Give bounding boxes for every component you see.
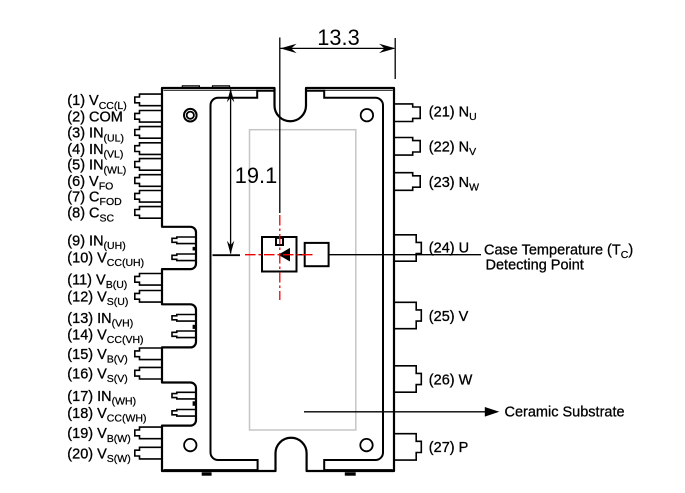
Tc arrowhead <box>278 248 290 262</box>
svg-text:(2) COM: (2) COM <box>67 110 123 126</box>
dimension 13.3 right extension line <box>394 38 396 79</box>
dimension 13.3 line with arrows <box>281 47 395 49</box>
vertical center/extension line <box>279 38 281 214</box>
pin 25 lead <box>393 302 421 328</box>
IGBT chip (Tc detect) square <box>262 237 297 272</box>
diode chip square <box>305 243 329 266</box>
svg-text:Ceramic Substrate: Ceramic Substrate <box>505 405 625 421</box>
pin 12 lead <box>135 291 164 303</box>
svg-text:Detecting Point: Detecting Point <box>486 258 584 274</box>
svg-text:(24) U: (24) U <box>429 240 469 256</box>
pin 21 lead <box>393 104 420 122</box>
top chamfer line left <box>164 89 258 91</box>
pin 2 lead <box>135 111 164 123</box>
edge mark recess 3 <box>193 401 196 406</box>
pin 15 lead <box>135 348 164 360</box>
bottom chamfer line right <box>324 468 393 470</box>
gate mark bottom 1 <box>202 472 212 475</box>
pin 11 lead <box>135 274 164 286</box>
pin 16 lead <box>135 367 164 379</box>
svg-text:(25) V: (25) V <box>429 309 469 325</box>
pin 14 lead <box>172 331 198 338</box>
pin 7 lead <box>135 191 164 203</box>
mounting hole bottom-right <box>360 439 372 451</box>
pin 19 lead <box>135 427 164 439</box>
pin 1 lead <box>135 94 164 106</box>
pin 26 lead <box>393 366 421 392</box>
pin 23 lead <box>393 173 420 191</box>
pin 13 lead <box>172 315 198 322</box>
gate mark bottom 3 <box>345 472 356 475</box>
mounting hole top-left (pin1 index, double circle) <box>184 109 197 122</box>
svg-text:(26) W: (26) W <box>429 372 473 388</box>
pin 9 lead <box>172 237 198 244</box>
svg-text:(22) NV: (22) NV <box>429 140 476 159</box>
small sensor square on chip <box>276 238 283 245</box>
pin 3 lead <box>135 127 164 139</box>
mounting hole bottom-left <box>184 439 196 451</box>
pin 5 lead <box>135 159 164 171</box>
top chamfer line right <box>324 89 393 91</box>
pin 22 lead <box>393 138 420 156</box>
pin 18 lead <box>172 410 198 417</box>
dimension 19.1 line with arrows <box>230 90 232 254</box>
pin 6 lead <box>135 175 164 187</box>
svg-text:19.1: 19.1 <box>235 163 277 188</box>
case inner (lid) outline right half <box>306 91 383 470</box>
pin 24 lead <box>393 235 421 261</box>
Tc callout leader line <box>288 254 481 256</box>
case inner (lid) outline left half <box>211 91 275 470</box>
pin 27 lead <box>393 434 421 460</box>
gate mark top 2 <box>213 86 230 88</box>
pin 8 lead <box>135 207 164 219</box>
red centerline horizontal <box>245 254 313 256</box>
package outer outline <box>162 88 394 471</box>
pin 20 lead <box>135 447 164 459</box>
svg-text:13.3: 13.3 <box>317 25 359 50</box>
ceramic substrate outline (gray) <box>250 130 356 430</box>
ceramic substrate arrowhead <box>485 407 500 417</box>
pin 4 lead <box>135 143 164 155</box>
gate mark top 1 <box>182 86 199 88</box>
pin 10 lead <box>172 254 198 261</box>
ceramic substrate leader line <box>304 411 486 413</box>
mounting hole top-right <box>361 109 373 121</box>
pin 17 lead <box>172 392 198 399</box>
dimension 19.1 terminator line <box>213 254 241 256</box>
bottom chamfer line left <box>164 468 258 470</box>
red centerline vertical <box>279 215 281 300</box>
svg-text:(27) P: (27) P <box>429 440 469 456</box>
edge mark recess 2 <box>193 325 196 329</box>
edge mark recess 1 <box>193 247 196 251</box>
